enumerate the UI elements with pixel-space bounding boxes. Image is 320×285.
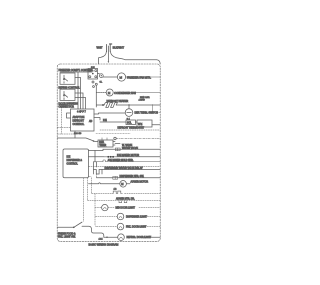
- refrigerator control thermostat box: [60, 89, 75, 100]
- wire row y133.4 dotted: [96, 132, 130, 134]
- wire row y177.8: [97, 177, 161, 179]
- svg-text:ICE: ICE: [103, 120, 107, 122]
- svg-text:DEF. TERM. SWITCH: DEF. TERM. SWITCH: [135, 112, 159, 115]
- wire dashed row y134: [57, 133, 77, 135]
- vertical bus x87.5 bottom dashed: [87, 178, 89, 201]
- wire row auger y183.8: [89, 183, 131, 184]
- wire row y216.5: [96, 216, 161, 218]
- connector blob ice maker: [104, 156, 117, 158]
- svg-text:DISPENSER &: DISPENSER &: [67, 160, 83, 162]
- wire condenser fan to border: [130, 92, 160, 94]
- wire right conductor from plug to cabinet top right: [110, 52, 160, 65]
- svg-text:FRZ. LIGHT SW.: FRZ. LIGHT SW.: [58, 236, 76, 238]
- auger motor: [120, 181, 127, 188]
- thermostat box right-middle A: [126, 120, 136, 125]
- wire row y161.7: [94, 161, 161, 163]
- wire condenser fan row dashed: [96, 92, 106, 94]
- svg-text:SOL: SOL: [127, 123, 132, 125]
- junction dot before timer: [93, 140, 94, 141]
- wire row y237.2: [104, 236, 160, 238]
- svg-text:CONTROL: CONTROL: [73, 123, 85, 126]
- defrost limit box B: [137, 120, 152, 127]
- wire freezer fan to border: [126, 76, 161, 78]
- svg-text:BLK/WHT: BLK/WHT: [113, 45, 125, 49]
- svg-text:1 3 8 10: 1 3 8 10: [74, 133, 82, 135]
- wire timer to right: [113, 142, 120, 146]
- svg-text:DISPENSER LIGHT: DISPENSER LIGHT: [126, 217, 148, 219]
- svg-text:S M: S M: [91, 67, 95, 69]
- connector bump row y161.7: [103, 160, 109, 162]
- svg-text:DISPENSER WATER VALVE RELAY: DISPENSER WATER VALVE RELAY: [105, 167, 144, 170]
- svg-text:4 4P P 7: 4 4P P 7: [77, 111, 87, 113]
- svg-text:BASIC WIRING DIAGRAM: BASIC WIRING DIAGRAM: [89, 244, 119, 247]
- svg-text:FRESH FOOD &: FRESH FOOD &: [58, 233, 76, 235]
- light switch SW1: [57, 222, 104, 237]
- svg-text:AUGER MTR. DR.: AUGER MTR. DR.: [116, 198, 135, 201]
- vertical stubs above comb: [94, 162, 97, 170]
- wire row y130 dashed: [100, 129, 160, 131]
- svg-text:WATER VALVE: WATER VALVE: [122, 147, 138, 150]
- compressor relay and overload assembly: [88, 67, 103, 88]
- dispenser light lamp: [117, 213, 124, 220]
- wire term switch to border dotted: [153, 112, 161, 114]
- refrig light lamp: [118, 234, 125, 241]
- svg-text:CONTROL: CONTROL: [67, 163, 79, 165]
- wire row y226.6: [97, 226, 118, 228]
- svg-text:AD: AD: [89, 120, 93, 123]
- twin solenoid connector bumps: [112, 191, 160, 193]
- wire L1 top bus: [60, 69, 92, 73]
- connector bumps on y200.5: [119, 201, 127, 203]
- junction heater to term switch: [128, 104, 129, 105]
- wire row y122 linking boxes: [100, 122, 160, 125]
- svg-text:AUGER MOTOR: AUGER MOTOR: [131, 181, 149, 184]
- connector plug row A: [115, 148, 120, 151]
- svg-text:DEF.: DEF.: [99, 142, 104, 144]
- wire drop to term switch: [128, 105, 130, 109]
- wire ADC bottom pin drop: [74, 131, 76, 138]
- wire row y138 to timer: [57, 138, 98, 142]
- svg-text:TIMER: TIMER: [99, 145, 106, 147]
- power cord plug P1: [107, 44, 112, 63]
- adaptive defrost control box U1: [71, 109, 95, 131]
- ice and water dispenser control box: [63, 149, 89, 178]
- svg-text:ICE: ICE: [67, 157, 71, 159]
- wire row y200.5 dashed: [88, 200, 161, 202]
- junction label block underline: [59, 104, 68, 106]
- wire ADC left stub: [67, 113, 71, 118]
- freezer light lamp: [117, 223, 124, 230]
- wire pin 1 drop to ADC: [77, 72, 79, 109]
- svg-text:FRZ. DOOR LIGHT: FRZ. DOOR LIGHT: [126, 227, 147, 229]
- connector comb: [94, 170, 103, 175]
- wire vertical x61.5: [61, 107, 63, 134]
- svg-text:W.V.: W.V.: [138, 124, 143, 126]
- freezer fan motor: [117, 73, 125, 81]
- wire row ice maker y157: [89, 156, 161, 158]
- condenser fan motor: [106, 89, 113, 96]
- wire term switch left lead: [94, 113, 125, 114]
- wire pin 2 drop to ADC: [75, 78, 81, 110]
- cabinet outline (dashed border): [57, 64, 160, 241]
- svg-text:DEFROST THERMOSTAT: DEFROST THERMOSTAT: [118, 127, 145, 130]
- freezer control thermostat box: [60, 73, 75, 84]
- wire relay overload drop: [95, 85, 97, 107]
- svg-text:ICE MAKER MOTOR: ICE MAKER MOTOR: [117, 154, 139, 157]
- wire row y207.6: [95, 207, 160, 209]
- wire defrost heater row: [96, 104, 160, 106]
- junction dot refrig row: [106, 237, 107, 238]
- wire left conductor from plug to cabinet: [99, 52, 107, 65]
- wire row water valve y150: [89, 149, 161, 150]
- defrost heater resistor: [102, 103, 117, 108]
- svg-text:DISPENSER HTR. SW.: DISPENSER HTR. SW.: [120, 176, 145, 178]
- wire pin 3 drop to ADC: [75, 93, 83, 109]
- svg-text:RUN CAP.: RUN CAP.: [140, 96, 150, 99]
- svg-text:WHT: WHT: [97, 45, 103, 49]
- wire row y166.3 dashed: [89, 165, 161, 167]
- vertical bus x95: [94, 151, 96, 163]
- wire row dispenser relay y170: [102, 169, 160, 171]
- connector plug row E: [113, 177, 118, 180]
- defrost termination switch: [125, 109, 133, 117]
- svg-text:4 MFD: 4 MFD: [139, 100, 146, 102]
- svg-text:MID DOOR LIGHT: MID DOOR LIGHT: [116, 208, 136, 210]
- wire stub vertical near border: [152, 105, 154, 113]
- wire ADC pin row to relay circuit: [94, 118, 100, 121]
- vertical bus x91.5 dashed: [91, 178, 93, 194]
- wire step below comb: [89, 174, 97, 178]
- svg-text:M: M: [120, 76, 123, 80]
- wire row y138.5 dash-dot to border: [116, 138, 160, 140]
- wire ADC left dashed stub: [57, 127, 70, 129]
- wire pin 4 drop to ADC: [75, 98, 86, 110]
- junction circle row y138.5: [114, 137, 116, 139]
- vertical bus x83.5 dashed to switch: [83, 178, 85, 222]
- wire row y193.5 dashed: [92, 193, 113, 195]
- defrost timer small box: [98, 138, 113, 147]
- svg-text:W. VALVE: W. VALVE: [122, 144, 133, 147]
- vertical bus x95 dashed: [95, 194, 97, 227]
- wire relay to freezer fan: [98, 74, 118, 78]
- mid door light lamp: [102, 204, 108, 210]
